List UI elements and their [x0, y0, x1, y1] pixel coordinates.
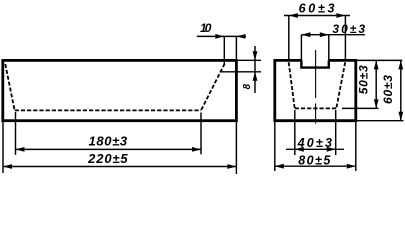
hidden cavity floor, side view (dashed) [15, 109, 201, 111]
dimension 8 (end wall drop below rim) [236, 46, 261, 93]
svg-text:30±3: 30±3 [332, 22, 365, 36]
notch walls and notch floor, end view [301, 60, 328, 67]
svg-text:80±5: 80±5 [298, 154, 331, 168]
dimension 80±5 (overall width) [275, 122, 356, 171]
end view outline (block, top edge interrupted by notch) [275, 60, 356, 120]
vertical centre line of end view (dash-dot) [315, 50, 317, 124]
hidden cavity left wall, end view (dashed) [289, 62, 295, 108]
svg-text:180±3: 180±3 [89, 134, 128, 149]
side view outline (rectangular trough body) [3, 60, 237, 120]
svg-text:50±3: 50±3 [356, 65, 370, 94]
hidden cavity left end wall, side view (dashed) [5, 64, 14, 110]
hidden cavity right end wall, side view (dashed) [201, 64, 225, 111]
dimension 10 (end wall top thickness) [197, 21, 246, 66]
dimension 60±3 (overall height) [357, 60, 404, 120]
svg-text:220±5: 220±5 [87, 151, 128, 166]
hidden cavity right wall, end view (dashed) [336, 62, 345, 108]
dimension 50±3 (cavity depth) [342, 60, 402, 108]
top edge of lowered right end wall (visible through rim) [221, 71, 261, 73]
svg-text:60±3: 60±3 [381, 75, 395, 104]
hidden cavity floor, end view (dashed) [295, 107, 337, 109]
svg-text:8: 8 [242, 83, 253, 89]
dimension 40±3 (cavity bottom width) [286, 110, 344, 155]
dimension 30±3 (notch width) [301, 22, 365, 60]
dimension 180±3 (cavity bottom length) [16, 112, 202, 155]
dimension 220±5 (overall length) [3, 122, 236, 174]
dimension 60±3 (cavity top opening width) [284, 1, 350, 61]
svg-text:10: 10 [200, 21, 212, 35]
